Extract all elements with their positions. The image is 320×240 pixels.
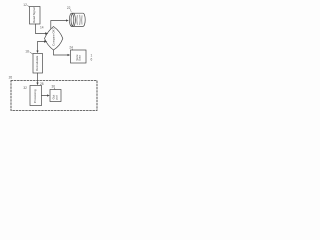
block 16 — [71, 50, 87, 63]
label 18 — [25, 50, 33, 55]
svg-text:14: 14 — [40, 25, 44, 29]
svg-text:Processing: Processing — [33, 89, 37, 103]
wire diamond lower-left to block 18 — [38, 42, 46, 52]
svg-text:26: 26 — [9, 75, 13, 79]
svg-text:put: put — [54, 95, 58, 99]
wire 12 bottom to diamond — [36, 24, 47, 34]
decision diamond — [45, 27, 63, 51]
arrowhead into diamond upper-left — [45, 32, 48, 35]
svg-text:6: 6 — [91, 58, 93, 62]
label 14 — [40, 25, 44, 29]
svg-text:Data: Data — [77, 55, 81, 61]
arrowhead into cylinder — [66, 19, 69, 21]
svg-text:12: 12 — [23, 3, 27, 7]
svg-text:Compare OK?: Compare OK? — [52, 27, 56, 45]
wire block A to block B — [42, 95, 49, 97]
label above block B — [52, 85, 56, 90]
svg-text:32: 32 — [23, 86, 27, 90]
arrowhead into block 18 top — [36, 51, 38, 54]
arrowhead into block A — [36, 83, 38, 86]
block 12 — [30, 7, 41, 25]
svg-text:24: 24 — [69, 45, 73, 49]
label left of block A — [23, 86, 27, 90]
dashed box 26 — [11, 81, 97, 111]
label 12 — [23, 3, 29, 7]
block B — [50, 90, 61, 102]
svg-text:Demodulate: Demodulate — [35, 55, 39, 71]
wire diamond apex to cylinder — [51, 21, 67, 29]
arrowhead into block B — [47, 94, 50, 96]
wire diamond bottom to block 16 — [54, 50, 69, 55]
wire block 18 to block A — [37, 73, 39, 84]
label 24 — [69, 45, 73, 50]
block A — [30, 86, 42, 106]
label 22 — [67, 6, 71, 12]
block 18 — [33, 54, 43, 74]
svg-text:18: 18 — [25, 50, 29, 54]
label 28 — [40, 82, 44, 86]
label 16 — [91, 54, 93, 62]
arrowhead into diamond lower-left — [44, 40, 47, 43]
arrowhead into block 16 — [68, 54, 71, 56]
cylinder 22 — [69, 13, 85, 26]
label 26 — [9, 75, 13, 79]
svg-text:Read Signal: Read Signal — [32, 7, 36, 23]
